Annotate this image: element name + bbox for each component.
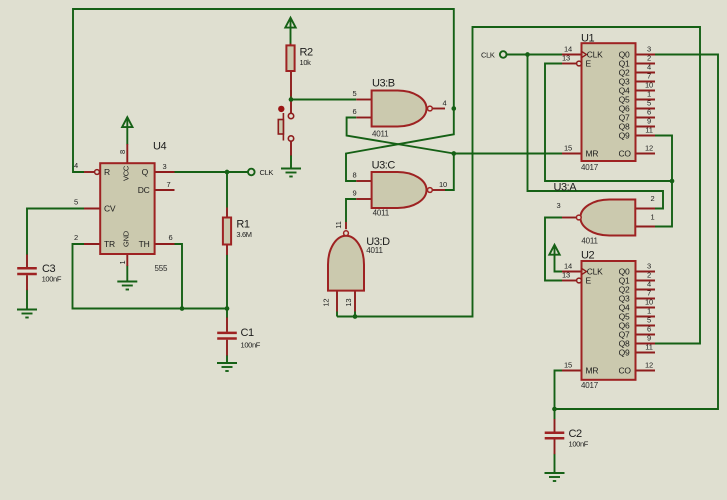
nand gate U3:A (mirrored)	[554, 182, 656, 246]
svg-text:U3:B: U3:B	[372, 78, 395, 90]
svg-text:7: 7	[647, 289, 651, 298]
svg-text:13: 13	[562, 54, 570, 63]
svg-text:4: 4	[647, 63, 651, 72]
svg-text:10: 10	[439, 180, 447, 189]
svg-text:6: 6	[647, 108, 651, 117]
svg-text:9: 9	[353, 189, 357, 198]
resistor R1 3.6M	[223, 208, 252, 256]
svg-text:4017: 4017	[581, 381, 599, 390]
ground under 555	[117, 282, 137, 290]
node 555 Q junction	[225, 170, 230, 175]
svg-text:4: 4	[647, 280, 651, 289]
pin 2 TR stub	[84, 243, 100, 245]
pin 6 TH stub	[155, 243, 175, 245]
svg-text:DC: DC	[138, 185, 150, 195]
node U2 MR C2 junction	[552, 407, 557, 412]
svg-text:5: 5	[647, 316, 651, 325]
svg-text:E: E	[586, 59, 592, 69]
svg-text:2: 2	[651, 194, 655, 203]
ground under C2	[545, 473, 565, 481]
nand gate U3:B	[353, 78, 447, 139]
svg-text:13: 13	[344, 299, 353, 307]
wire R1 bottom to bottom rail junction	[226, 255, 228, 309]
svg-text:1: 1	[647, 307, 651, 316]
svg-text:R1: R1	[236, 218, 249, 230]
4017 counter U2	[562, 250, 655, 390]
svg-text:U3:C: U3:C	[372, 160, 396, 172]
wire U3:D input12 down	[336, 312, 338, 317]
svg-text:C1: C1	[241, 327, 254, 339]
svg-text:CLK: CLK	[481, 51, 495, 60]
svg-text:R: R	[104, 167, 110, 177]
svg-text:TR: TR	[104, 239, 115, 249]
svg-text:Q: Q	[142, 167, 149, 177]
node U1 CLK junction	[525, 52, 530, 57]
svg-text:2: 2	[647, 54, 651, 63]
svg-text:3: 3	[163, 162, 167, 171]
svg-text:MR: MR	[586, 149, 599, 159]
node TH rail junction	[180, 306, 185, 311]
svg-text:11: 11	[645, 126, 652, 135]
power terminal above 555 VCC	[122, 117, 132, 127]
U1 E bubble pin13	[577, 61, 582, 66]
svg-text:9: 9	[647, 334, 651, 343]
svg-text:3.6M: 3.6M	[236, 230, 251, 239]
terminal CLK output of 555	[248, 169, 255, 176]
svg-text:Q9: Q9	[619, 131, 630, 141]
wire U1 Q9 down to junction and U3:A pin1	[655, 136, 672, 227]
svg-text:12: 12	[322, 299, 331, 307]
node R2 button junction	[289, 97, 294, 102]
node junction dots top layer	[180, 52, 674, 411]
svg-text:3: 3	[557, 201, 561, 210]
wire U3:C pin9 to U3:D output	[346, 199, 356, 222]
svg-text:14: 14	[564, 262, 572, 271]
capacitor C3 100nF	[17, 255, 62, 291]
svg-text:MR: MR	[586, 366, 599, 376]
svg-text:TH: TH	[139, 239, 150, 249]
svg-text:VCC: VCC	[122, 165, 131, 181]
wire 555 TH down to rail	[174, 244, 182, 309]
wire junction down to C2	[554, 409, 556, 420]
pin 4 R stub	[84, 171, 94, 173]
wire button bottom to ground	[290, 155, 292, 169]
ground under C3	[17, 310, 37, 318]
terminal CLK input of U1	[500, 51, 507, 58]
svg-text:8: 8	[118, 150, 127, 154]
svg-text:15: 15	[564, 361, 572, 370]
svg-text:3: 3	[647, 262, 651, 271]
wire CLK terminal to U1 CLK pin14	[507, 54, 562, 56]
wire U3:A output to U2 E	[545, 218, 562, 281]
node U3:D inputs junction	[353, 314, 358, 319]
wire 555 TR to bottom rail	[73, 244, 228, 309]
power terminal above U2 CLK	[549, 245, 559, 255]
svg-text:4: 4	[443, 99, 447, 108]
svg-text:U2: U2	[581, 250, 594, 262]
wire 555 reset loop to U3:B output	[73, 9, 454, 172]
svg-text:11: 11	[334, 221, 343, 228]
nand gate U3:D (rotated up)	[322, 221, 391, 311]
wire U2 power arrow to CLK pin14	[555, 255, 563, 272]
U2 clock chevron pin14	[582, 268, 587, 274]
wire R2 bottom junction to U3:B pin5	[291, 99, 356, 101]
wire U3:B pin6 to U3:C output (diagonal cross)	[347, 118, 454, 154]
capacitor C2 100nF	[545, 419, 589, 454]
wire 555 VCC stem	[126, 127, 128, 145]
svg-text:GND: GND	[122, 230, 131, 247]
wire 555 Q output to CLK terminal	[174, 171, 248, 173]
wire U1 Q0 to U2 MR rail	[555, 55, 719, 410]
svg-text:1: 1	[651, 212, 655, 221]
svg-text:4: 4	[74, 161, 78, 170]
node U3:C output junction	[452, 151, 457, 156]
svg-text:6: 6	[647, 325, 651, 334]
ground under button	[281, 169, 301, 177]
svg-text:U3:A: U3:A	[554, 182, 578, 194]
svg-text:10: 10	[645, 298, 653, 307]
svg-text:100nF: 100nF	[42, 275, 62, 284]
555 body	[100, 163, 154, 254]
svg-text:C2: C2	[569, 428, 582, 440]
node R1 C1 rail junction	[225, 306, 230, 311]
wire junction down to R1 top	[226, 172, 228, 208]
wire junction to U1 MR pin15	[454, 153, 562, 155]
svg-text:100nF: 100nF	[241, 341, 261, 350]
U2 E bubble pin13	[577, 278, 582, 283]
pin 5 CV stub	[84, 208, 100, 210]
pin 7 DC stub	[155, 189, 175, 191]
svg-text:5: 5	[74, 198, 78, 207]
pin 1 GND stub	[126, 254, 128, 266]
svg-text:4011: 4011	[581, 237, 598, 246]
svg-text:3: 3	[647, 45, 651, 54]
svg-text:11: 11	[645, 343, 652, 352]
svg-text:U4: U4	[153, 141, 166, 153]
wire U3:D input13 down	[354, 312, 356, 317]
svg-text:6: 6	[169, 233, 173, 242]
svg-text:7: 7	[647, 72, 651, 81]
wire C1 top from junction	[226, 309, 228, 319]
wire R2 top power stem	[290, 27, 292, 44]
wire C3 bottom to ground	[26, 290, 28, 310]
svg-text:9: 9	[647, 117, 651, 126]
nand gate U3:C	[353, 160, 447, 218]
svg-text:4011: 4011	[366, 246, 383, 255]
ground under C1	[217, 363, 237, 371]
wire 555 GND to ground	[126, 266, 128, 282]
U1 clock chevron pin14	[582, 51, 587, 57]
svg-text:CV: CV	[104, 204, 116, 214]
pin 8 VCC stub	[126, 144, 128, 163]
svg-text:14: 14	[564, 45, 572, 54]
wire U3:D inputs to U2 Q8 via top	[337, 27, 700, 344]
svg-text:CLK: CLK	[260, 168, 274, 177]
svg-text:10: 10	[645, 81, 653, 90]
wire U3:B output to U3:C input8 (diagonal cross)	[346, 109, 454, 182]
push button	[278, 97, 294, 156]
node E Q9 junction	[670, 179, 675, 184]
svg-text:10k: 10k	[300, 58, 312, 67]
wire C1 bottom to ground	[226, 355, 228, 363]
wire R2 bottom to junction	[290, 90, 292, 100]
power terminal above R2	[285, 18, 295, 28]
svg-text:100nF: 100nF	[569, 439, 589, 448]
svg-text:5: 5	[647, 99, 651, 108]
4017 counter U1	[562, 33, 655, 173]
svg-text:8: 8	[353, 171, 357, 180]
svg-text:R2: R2	[300, 47, 313, 59]
wire CLK junction to U3:A pin2	[528, 55, 664, 209]
svg-text:12: 12	[645, 144, 653, 153]
svg-text:7: 7	[167, 180, 171, 189]
svg-text:5: 5	[353, 89, 357, 98]
wire U3:C output up to junction	[445, 154, 454, 191]
wire 555 CV to C3	[27, 209, 84, 256]
svg-text:13: 13	[562, 271, 570, 280]
resistor R2 10k	[286, 44, 313, 97]
svg-text:U1: U1	[581, 33, 594, 45]
svg-text:1: 1	[118, 260, 127, 264]
svg-text:555: 555	[155, 264, 168, 273]
svg-text:12: 12	[645, 361, 653, 370]
wire C2 bottom to ground	[554, 454, 556, 474]
svg-text:4011: 4011	[372, 130, 389, 139]
svg-text:1: 1	[647, 90, 651, 99]
svg-text:2: 2	[647, 271, 651, 280]
wire U1 E to junction net	[545, 64, 672, 182]
svg-text:CO: CO	[619, 149, 632, 159]
svg-text:4017: 4017	[581, 163, 599, 172]
svg-text:6: 6	[353, 107, 357, 116]
svg-text:Q9: Q9	[619, 348, 630, 358]
capacitor C1 100nF	[217, 318, 261, 356]
svg-text:15: 15	[564, 144, 572, 153]
wire U2 MR to junction	[555, 371, 563, 410]
pin 4 inversion bubble	[95, 170, 100, 175]
svg-text:CO: CO	[619, 366, 632, 376]
pin 3 Q stub	[155, 171, 175, 173]
555 timer U4	[74, 141, 174, 274]
svg-text:C3: C3	[42, 263, 55, 275]
node U3:B output junction	[452, 106, 457, 111]
svg-text:4011: 4011	[373, 209, 390, 218]
svg-text:E: E	[586, 276, 592, 286]
svg-text:2: 2	[74, 233, 78, 242]
